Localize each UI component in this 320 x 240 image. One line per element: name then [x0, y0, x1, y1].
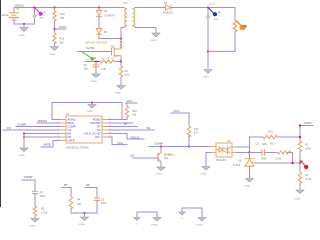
U2 right pin stubs — [102, 120, 108, 138]
wire divider mid — [299, 152, 301, 173]
wire RT chain — [62, 188, 71, 197]
ground SGND right — [198, 218, 206, 222]
ground SGND secondary return — [152, 33, 160, 37]
M1 drain lead — [114, 48, 121, 51]
svg-text:SGND: SGND — [244, 185, 251, 187]
svg-text:R12: R12 — [194, 128, 199, 131]
svg-text:100n: 100n — [101, 202, 107, 205]
wire SS chain — [86, 188, 98, 199]
voltage probe (green) on gate — [83, 52, 96, 60]
svg-text:TL431: TL431 — [233, 164, 241, 167]
svg-text:RT: RT — [97, 125, 101, 129]
wire R11 row — [250, 136, 264, 138]
svg-text:EP: EP — [68, 132, 72, 136]
wire VOUT stub — [300, 126, 313, 142]
svg-text:PGND: PGND — [79, 224, 86, 226]
svg-text:AGND: AGND — [68, 118, 76, 122]
wire load branch right leg — [234, 8, 236, 21]
TX1 secondary winding — [133, 8, 136, 28]
wire FB pin — [24, 136, 60, 138]
wire C4 to R6 — [34, 194, 36, 206]
wire R15 top lead — [54, 8, 56, 11]
wire (red marked) sense segment — [94, 61, 98, 63]
page border left edge — [0, 0, 2, 207]
junction VDD12 rail / sense branch — [33, 6, 35, 8]
junction sense row / source column — [120, 60, 122, 62]
svg-text:GATE: GATE — [43, 143, 51, 147]
resistor R2 3.0k — [119, 62, 130, 77]
svg-text:MUR110: MUR110 — [163, 11, 173, 14]
svg-text:2.01k: 2.01k — [275, 158, 282, 161]
op-amp U2 LM5155 controller body — [66, 116, 102, 143]
wire V1 negative lead — [14, 20, 35, 24]
svg-text:SGND: SGND — [151, 40, 158, 42]
svg-text:SGND: SGND — [203, 77, 210, 79]
capacitor C3 — [94, 198, 99, 200]
junction VOUT rail — [207, 6, 209, 8]
svg-text:PGND: PGND — [151, 224, 158, 226]
svg-text:DRAIN OPTION: DRAIN OPTION — [86, 40, 108, 44]
junction drain option node — [120, 37, 122, 39]
diode D7 — [166, 5, 172, 10]
svg-text:12Vdc: 12Vdc — [2, 14, 10, 17]
svg-text:COMP: COMP — [154, 142, 163, 146]
svg-text:PGND: PGND — [19, 35, 26, 37]
wire VCC stub — [126, 102, 138, 104]
wire TX1 primary bottom to drain — [121, 28, 124, 40]
resistor R12 5.1k — [187, 126, 190, 137]
ground 0 left — [179, 212, 185, 215]
junction R11 row / divider column — [299, 136, 301, 138]
svg-text:3.01k: 3.01k — [41, 212, 48, 215]
U2 pin numbers left — [58, 118, 59, 141]
wire R4 bottom — [71, 209, 97, 213]
svg-text:PGND: PGND — [49, 54, 56, 56]
junction EP/FB ground tie — [23, 132, 25, 134]
wire TL431 ref line — [256, 162, 301, 164]
ground PGND below C6 — [91, 67, 101, 83]
current flag diamond on sense branch — [33, 14, 36, 17]
svg-text:SGND: SGND — [196, 224, 203, 226]
svg-text:LM5155-Q1_TRANS: LM5155-Q1_TRANS — [66, 146, 89, 149]
svg-text:8: 8 — [109, 118, 110, 120]
voltage probe (red) at divider node — [300, 160, 308, 169]
junction VDD12 rail / D4 clamp — [98, 6, 100, 8]
resistor R11 — [263, 135, 277, 138]
wire PGOOD pin — [108, 122, 133, 124]
capacitor C9 — [262, 150, 265, 155]
wire (red dashed option) drain link — [120, 39, 122, 49]
wire D6 anode to drain node — [99, 34, 121, 38]
wire COMP chain top — [22, 180, 35, 191]
svg-text:RT: RT — [64, 183, 68, 187]
svg-text:TX1: TX1 — [123, 2, 128, 5]
ground PGND right — [153, 218, 161, 222]
junction ground loop / PGND tap — [91, 101, 93, 103]
svg-text:COMP: COMP — [68, 125, 76, 129]
wire opto emitter to TL431 node — [237, 152, 250, 154]
junction sense row / C6 — [95, 60, 97, 62]
ground PGND below R2 — [115, 77, 125, 94]
junction ref line / compensation row — [291, 162, 293, 164]
ground PGND below RT/SS chains — [79, 213, 89, 226]
resistor R4 22k — [69, 197, 72, 210]
svg-text:100n: 100n — [40, 195, 46, 198]
current probe (magenta) at VDD12 node — [35, 8, 46, 20]
wire V1 positive lead — [13, 8, 15, 13]
M1 channel segments — [113, 48, 115, 50]
M1 gate wire — [78, 51, 112, 53]
svg-text:BCM8_1: BCM8_1 — [164, 152, 175, 156]
ground SGND bottom right — [296, 190, 304, 194]
wire VCC to R12 — [171, 113, 189, 126]
svg-text:100k: 100k — [305, 147, 311, 150]
voltage probe (navy) at VOUT — [208, 4, 220, 21]
svg-text:VOUT: VOUT — [209, 4, 216, 6]
svg-text:VCC: VCC — [127, 99, 133, 103]
svg-text:SS: SS — [130, 154, 134, 158]
wire C3 bottom — [96, 200, 98, 213]
svg-text:SS: SS — [97, 128, 101, 132]
wire sense row — [85, 61, 100, 63]
svg-text:1: 1 — [58, 118, 59, 120]
resistor R16 — [53, 33, 56, 44]
wire R3 to SGND — [299, 184, 301, 191]
svg-text:R11: R11 — [269, 130, 274, 133]
TX1 primary winding — [124, 8, 127, 28]
ground PGND left of U2 — [19, 134, 29, 157]
voltage source V1 — [10, 13, 19, 20]
wire riser to R11 row — [249, 137, 251, 153]
U2 pin numbers right — [109, 118, 111, 138]
wire R15-R16 link — [54, 21, 56, 33]
ground PGND above U2 — [87, 103, 97, 114]
M1 gate bar — [111, 49, 113, 55]
svg-text:PGND: PGND — [87, 111, 94, 113]
ground PGND below V1 — [19, 24, 29, 37]
junction UVLO tap — [53, 28, 55, 30]
junction VDD12 rail / R15 divider — [53, 6, 55, 8]
wire opto collector to riser — [237, 146, 250, 148]
junction TL431 cathode node — [248, 151, 250, 153]
wire VDD12 top rail — [14, 7, 124, 9]
svg-text:FB: FB — [68, 135, 72, 139]
svg-text:pwr_mos_q: pwr_mos_q — [102, 56, 114, 59]
ground PGND below R16 — [49, 44, 59, 56]
wire compensation row — [250, 152, 262, 154]
diode D4 — [96, 8, 102, 17]
junction ref line / divider column — [299, 162, 301, 164]
ground PGND below opto — [202, 167, 210, 171]
wire R12 to COMP line — [188, 136, 190, 146]
svg-text:R15: R15 — [60, 13, 65, 16]
svg-text:PGND: PGND — [201, 174, 208, 176]
svg-text:RT: RT — [124, 122, 128, 126]
wire output column — [207, 8, 209, 69]
svg-text:3.0k: 3.0k — [125, 74, 130, 77]
wire TX1 secondary bottom to SGND — [136, 28, 157, 34]
svg-text:GATE: GATE — [68, 139, 75, 143]
svg-text:SS: SS — [147, 126, 151, 130]
svg-text:100k: 100k — [261, 158, 267, 161]
resistor R6 3.01k — [33, 206, 36, 216]
resistor R10 10k — [122, 103, 137, 120]
svg-text:PGND: PGND — [115, 92, 122, 94]
wire opto LED cathode to PGND — [201, 153, 212, 176]
shunt regulator U5 TL431 — [245, 153, 256, 167]
ground PGND below R6 — [29, 216, 39, 228]
svg-text:11.5k: 11.5k — [305, 178, 312, 181]
U2 right pin names — [84, 118, 101, 140]
svg-text:R10: R10 — [132, 110, 137, 113]
svg-text:33p: 33p — [84, 67, 89, 70]
M1 source lead — [114, 56, 121, 58]
optocoupler U4 — [211, 143, 237, 157]
svg-text:PGOOD: PGOOD — [90, 121, 100, 125]
resistor R5 2.4k — [100, 60, 114, 63]
diode D6 — [96, 29, 102, 35]
junction COMP line / R12 — [188, 145, 190, 147]
transistor Q1 — [158, 147, 161, 163]
current flag diamond on output column — [206, 15, 209, 18]
wire load bottom leg — [208, 32, 235, 51]
svg-text:UVLO_SY NC: UVLO_SY NC — [84, 132, 101, 136]
capacitor C6 — [93, 62, 98, 67]
resistor R15 — [53, 11, 56, 22]
svg-text:VOUT: VOUT — [304, 121, 312, 125]
resistor R14 load — [233, 20, 236, 32]
svg-text:PGND: PGND — [93, 118, 101, 122]
IC U2 ground loop wire — [52, 103, 122, 120]
ground tie 0-SGND — [179, 208, 206, 226]
junction COMP line / Q1 collector — [160, 145, 162, 147]
svg-text:HCC24C: HCC24C — [216, 159, 226, 162]
ground PGND below Q1 — [156, 162, 166, 176]
svg-text:PGND: PGND — [19, 155, 26, 157]
junction RT/SS ground tie — [83, 212, 85, 214]
junction VOUT stub — [299, 124, 301, 126]
junction output column / load branch — [207, 50, 209, 52]
svg-text:Q1: Q1 — [164, 156, 168, 160]
wire EP pin — [24, 133, 60, 135]
svg-text:100n: 100n — [262, 143, 268, 146]
svg-text:R16: R16 — [60, 38, 65, 41]
ground 0 left — [134, 218, 140, 221]
svg-text:VDD12: VDD12 — [15, 3, 25, 7]
svg-text:PGND: PGND — [156, 174, 163, 176]
svg-text:VCC: VCC — [174, 109, 180, 113]
wire D4-D6 link — [98, 16, 100, 28]
svg-text:R13: R13 — [270, 143, 275, 146]
U2 left pin stubs — [60, 120, 66, 141]
svg-text:GATE: GATE — [86, 46, 94, 50]
resistor R1 100k — [298, 141, 301, 152]
svg-text:PGND: PGND — [91, 81, 98, 83]
wire sense branch vertical — [34, 8, 36, 25]
resistor R3 11.5k — [298, 172, 301, 184]
svg-text:VCC: VCC — [95, 135, 101, 139]
resistor R13 — [278, 151, 291, 154]
svg-text:5.1k: 5.1k — [194, 131, 199, 134]
mouse cursor (orange arrow) — [237, 21, 247, 31]
svg-text:2.4k: 2.4k — [101, 68, 106, 71]
capacitor C4 — [32, 191, 37, 193]
svg-text:CS: CS — [68, 128, 72, 132]
wire D7 to VOUT node — [171, 7, 235, 9]
svg-text:2-1N4GP: 2-1N4GP — [104, 14, 115, 17]
ground tie 0-PGND — [134, 212, 161, 226]
ground SGND output return — [204, 70, 212, 74]
svg-text:BIAS: BIAS — [68, 121, 74, 125]
wire secondary top to D7 — [136, 7, 166, 9]
svg-text:COMP: COMP — [24, 175, 33, 179]
wire M1 source to sense row — [120, 58, 122, 62]
wire TL431 anode to SGND — [249, 166, 251, 178]
U2 left pin names — [68, 118, 76, 143]
svg-text:SS: SS — [86, 183, 90, 187]
junction at V1 bottom PGND tap — [23, 23, 25, 25]
svg-text:SGND: SGND — [294, 199, 301, 201]
ground SGND below TL431 — [246, 179, 254, 183]
svg-text:PGND: PGND — [29, 226, 36, 228]
